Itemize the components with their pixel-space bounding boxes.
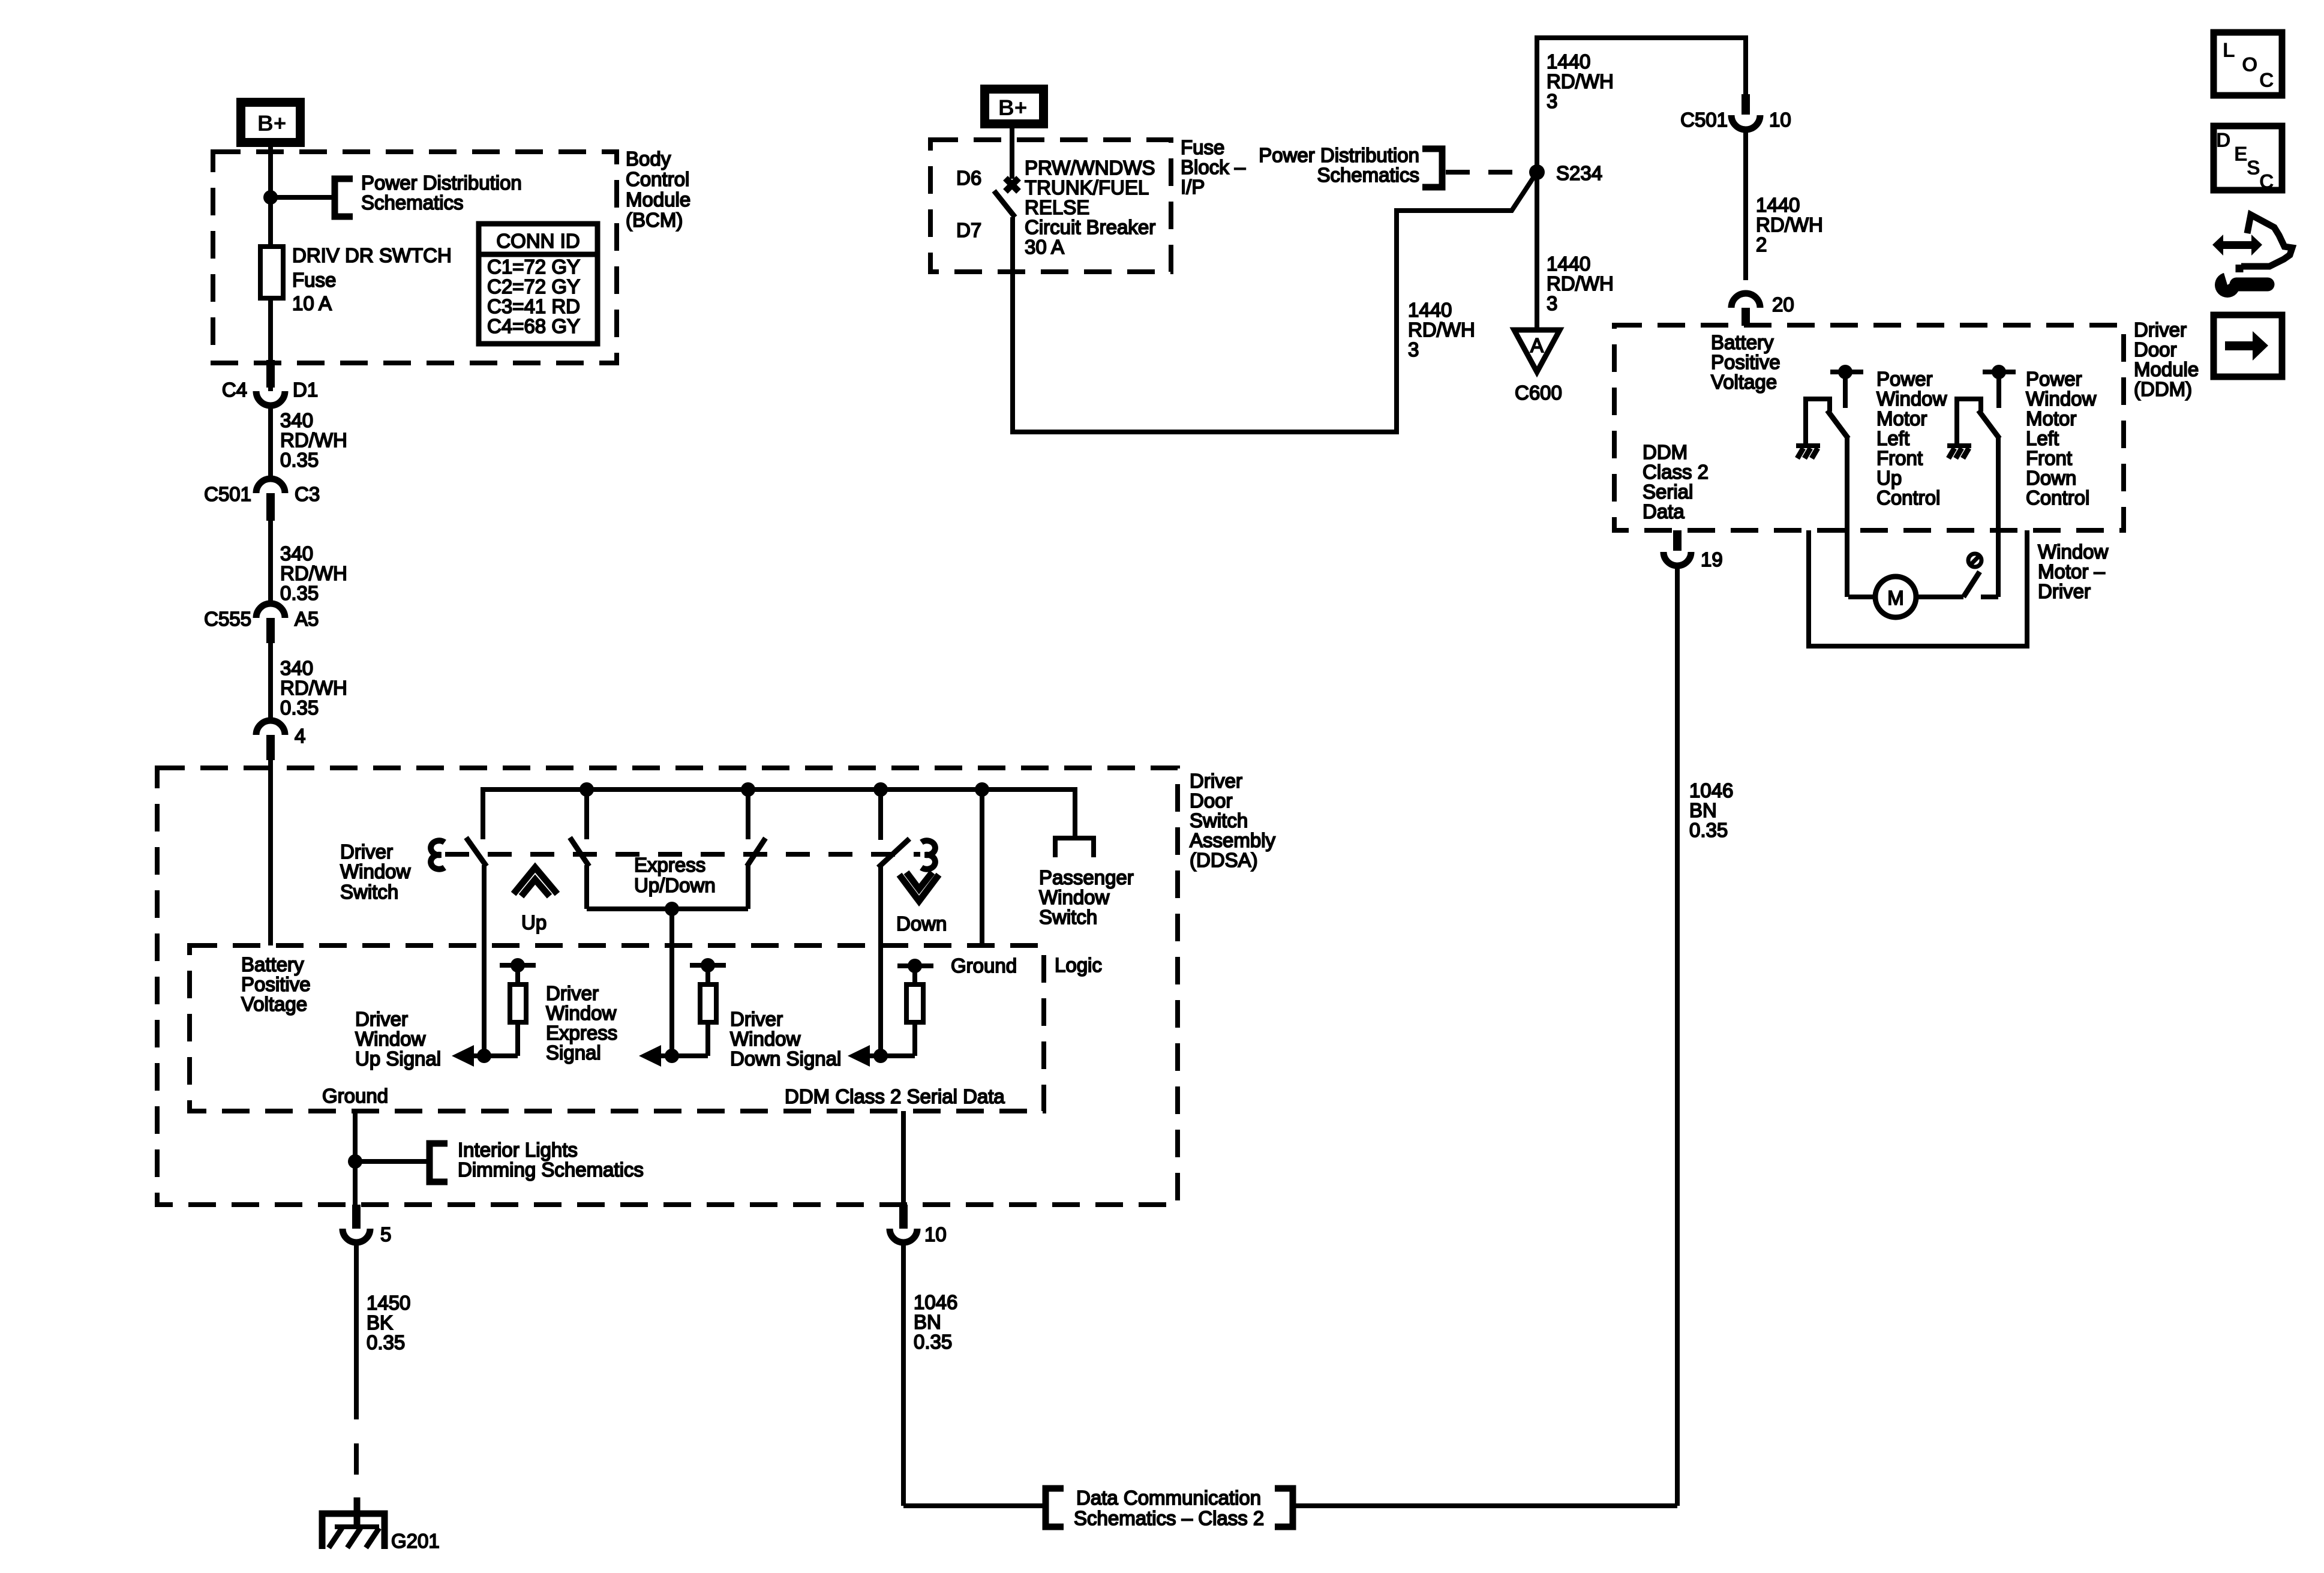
PRW/WNDWS breaker label	[1025, 157, 1155, 258]
Power Distribution Schematics reference bracket	[335, 172, 522, 217]
connector C600 (triangle A)	[1514, 330, 1562, 404]
express signal wire	[669, 909, 674, 1058]
connector pin 19	[1664, 530, 1723, 571]
svg-text:Module: Module	[626, 188, 690, 211]
ground G201	[322, 1497, 440, 1552]
svg-text:30 A: 30 A	[1025, 236, 1064, 258]
svg-text:Up: Up	[521, 911, 547, 933]
svg-text:1450: 1450	[367, 1292, 410, 1314]
svg-text:Down: Down	[896, 912, 947, 935]
junction to interior lights	[348, 1154, 362, 1169]
svg-text:Logic: Logic	[1055, 954, 1102, 976]
svg-text:1046: 1046	[914, 1291, 957, 1313]
svg-text:C4=68 GY: C4=68 GY	[487, 315, 580, 337]
wire 1046 BN label right	[1689, 779, 1733, 841]
svg-text:Down Signal: Down Signal	[730, 1047, 841, 1070]
wire 1440 RD/WH 3 label (below S234)	[1547, 253, 1614, 314]
svg-text:Control: Control	[2026, 487, 2089, 509]
connector pin 20	[1731, 293, 1794, 326]
svg-text:Motor –: Motor –	[2038, 560, 2106, 583]
switch bus wire	[483, 787, 1075, 792]
wire 340 RD/WH segment 3	[271, 643, 347, 722]
svg-text:RD/WH: RD/WH	[280, 677, 347, 699]
svg-text:RD/WH: RD/WH	[1547, 272, 1614, 295]
svg-text:340: 340	[280, 542, 313, 565]
svg-text:RD/WH: RD/WH	[280, 429, 347, 451]
svg-text:(DDM): (DDM)	[2134, 378, 2192, 400]
fuse DRIV DR SWTCH 10A	[260, 244, 452, 314]
svg-text:Control: Control	[626, 168, 689, 190]
express switch right blade	[747, 787, 765, 909]
svg-text:Window: Window	[340, 860, 411, 882]
svg-text:0.35: 0.35	[280, 582, 319, 604]
svg-text:10 A: 10 A	[292, 292, 332, 314]
svg-text:Interior Lights: Interior Lights	[458, 1139, 578, 1161]
svg-text:340: 340	[280, 409, 313, 431]
Body Control Module (BCM) dashed box	[213, 152, 617, 363]
svg-text:Data: Data	[1643, 500, 1685, 523]
svg-text:Front: Front	[1876, 447, 1923, 469]
serial data wire in DDSA	[901, 1111, 906, 1205]
svg-text:Motor: Motor	[1876, 407, 1927, 430]
svg-text:Assembly: Assembly	[1190, 829, 1276, 851]
svg-text:Window: Window	[1039, 886, 1110, 908]
DDSA label	[1190, 770, 1276, 871]
svg-text:Positive: Positive	[241, 973, 311, 995]
Window Motor Driver label	[2038, 541, 2109, 602]
svg-text:Voltage: Voltage	[1711, 371, 1777, 393]
svg-text:3: 3	[1547, 292, 1557, 314]
svg-text:2: 2	[1756, 233, 1767, 256]
svg-text:Window: Window	[2026, 388, 2097, 410]
svg-text:Serial: Serial	[1643, 481, 1693, 503]
svg-text:C2=72 GY: C2=72 GY	[487, 275, 580, 298]
bus junction node 4	[975, 782, 989, 797]
svg-text:S234: S234	[1556, 162, 1602, 184]
svg-text:10: 10	[924, 1223, 947, 1245]
svg-text:CONN ID: CONN ID	[496, 230, 580, 252]
svg-text:DDM Class 2 Serial Data: DDM Class 2 Serial Data	[785, 1085, 1005, 1107]
svg-text:DDM: DDM	[1643, 441, 1688, 463]
svg-text:Schematics: Schematics	[1317, 164, 1419, 186]
svg-text:Class 2: Class 2	[1643, 461, 1709, 483]
svg-text:PRW/WNDWS: PRW/WNDWS	[1025, 157, 1155, 179]
svg-text:Driver: Driver	[730, 1008, 783, 1030]
bus junction node 1	[580, 782, 594, 797]
wire 1440 RD/WH 3 label (left)	[1408, 299, 1475, 361]
svg-text:Power: Power	[1876, 368, 1933, 390]
wire to data communication bracket	[903, 1503, 1046, 1508]
wire 1450 BK	[356, 1242, 410, 1512]
arrow icon box	[2214, 315, 2282, 377]
svg-text:RD/WH: RD/WH	[280, 562, 347, 584]
D7 label	[956, 219, 981, 241]
svg-text:Power: Power	[2026, 368, 2082, 390]
DESC icon box	[2214, 126, 2282, 193]
svg-text:A: A	[1530, 334, 1544, 356]
svg-text:I/P: I/P	[1181, 176, 1205, 198]
svg-text:3: 3	[1547, 90, 1557, 112]
svg-text:L: L	[2223, 39, 2235, 62]
svg-text:Window: Window	[730, 1028, 801, 1050]
B+ power symbol (BCM feed)	[241, 103, 301, 143]
passenger window switch symbol	[1055, 787, 1094, 857]
svg-text:Schematics – Class 2: Schematics – Class 2	[1074, 1507, 1264, 1529]
svg-text:BN: BN	[1689, 799, 1717, 821]
svg-text:C1=72 GY: C1=72 GY	[487, 256, 580, 278]
Battery Positive Voltage label	[241, 953, 311, 1015]
splice S234	[1529, 162, 1602, 184]
svg-text:Dimming Schematics: Dimming Schematics	[458, 1158, 644, 1181]
wire 1440 RD/WH 2	[1746, 130, 1823, 280]
Driver Window Up Signal label	[355, 1008, 441, 1070]
svg-text:Window: Window	[1876, 388, 1947, 410]
svg-text:Window: Window	[546, 1002, 617, 1024]
svg-text:5: 5	[380, 1223, 391, 1245]
logic ground wire	[980, 789, 984, 945]
wire B+ into breaker	[1010, 128, 1014, 179]
Fuse Block I/P label	[1181, 136, 1246, 198]
wire 340 RD/WH segment 1	[271, 406, 347, 480]
svg-text:B+: B+	[998, 95, 1027, 120]
svg-text:DRIV DR SWTCH: DRIV DR SWTCH	[292, 244, 452, 266]
svg-text:(BCM): (BCM)	[626, 209, 683, 231]
svg-text:Battery: Battery	[241, 953, 304, 975]
Driver Door Switch Assembly (DDSA) dashed box	[157, 768, 1178, 1205]
svg-text:Window: Window	[355, 1028, 426, 1050]
DDM label	[2134, 319, 2199, 400]
svg-text:C501: C501	[1680, 109, 1728, 131]
Logic label	[1055, 954, 1102, 976]
Passenger Window Switch label	[1039, 866, 1134, 928]
wire to interior lights bracket	[355, 1159, 428, 1164]
svg-text:0.35: 0.35	[280, 449, 319, 471]
svg-text:C600: C600	[1515, 382, 1562, 404]
svg-text:Driver: Driver	[340, 840, 393, 863]
motor loop outer wires	[1809, 530, 2027, 646]
down switch	[878, 787, 909, 1058]
svg-text:Power Distribution: Power Distribution	[1259, 144, 1419, 166]
svg-text:1440: 1440	[1547, 50, 1590, 73]
B+ power symbol (fuse block feed)	[985, 89, 1044, 124]
wire breaker to S234	[1013, 172, 1537, 432]
svg-text:Power Distribution: Power Distribution	[361, 172, 522, 194]
bus junction node 3	[873, 782, 888, 797]
svg-text:0.35: 0.35	[914, 1331, 952, 1353]
svg-text:C3=41 RD: C3=41 RD	[487, 295, 580, 317]
Power Distribution Schematics bracket (middle)	[1259, 144, 1529, 187]
svg-text:1046: 1046	[1689, 779, 1733, 801]
svg-text:C501: C501	[204, 483, 251, 505]
svg-text:B+: B+	[257, 111, 286, 136]
svg-text:C555: C555	[204, 608, 251, 630]
Ground label (switch ground)	[322, 1085, 388, 1107]
Driver Window Express Signal label	[546, 982, 617, 1064]
driver window switch label	[340, 840, 411, 903]
svg-text:Passenger: Passenger	[1039, 866, 1134, 888]
wire 340 RD/WH segment 2	[271, 521, 347, 605]
svg-text:D1: D1	[293, 379, 318, 401]
bus junction node 2	[741, 782, 755, 797]
Interior Lights Dimming reference bracket	[430, 1139, 644, 1182]
svg-text:Ground: Ground	[951, 954, 1017, 977]
BCM label	[626, 148, 690, 231]
Fuse Block I/P dashed box	[930, 140, 1171, 272]
svg-text:Up/Down: Up/Down	[634, 874, 716, 896]
connector C501 / C3	[204, 479, 320, 521]
svg-text:RD/WH: RD/WH	[1408, 319, 1475, 341]
svg-text:Switch: Switch	[340, 881, 398, 903]
express junction node	[665, 902, 679, 916]
DDM Class 2 Serial Data label (DDM)	[1643, 441, 1709, 523]
Driver Door Module (DDM) dashed box	[1614, 325, 2124, 530]
resistor R1 (up signal pull)	[500, 958, 536, 1056]
svg-text:10: 10	[1769, 109, 1791, 131]
connector C555 / A5	[204, 604, 319, 643]
wire to Power Distribution bracket	[271, 195, 334, 200]
svg-text:Signal: Signal	[546, 1041, 601, 1064]
connector pin 4 of DDSA	[256, 721, 305, 760]
svg-text:Up Signal: Up Signal	[355, 1047, 441, 1070]
trunk wire S234 vertical and top run	[1537, 38, 1746, 332]
svg-text:Fuse: Fuse	[292, 269, 336, 291]
up signal row with arrow	[452, 1045, 518, 1067]
Battery Positive Voltage label (DDM)	[1711, 331, 1780, 393]
svg-text:Driver: Driver	[546, 982, 599, 1004]
linkage end symbol right	[921, 840, 935, 869]
svg-text:(DDSA): (DDSA)	[1190, 849, 1258, 871]
resistor R3 (down signal pull)	[897, 959, 933, 1056]
svg-text:Front: Front	[2026, 447, 2072, 469]
diagnostic car icon	[2212, 215, 2292, 272]
svg-text:RD/WH: RD/WH	[1756, 214, 1823, 236]
svg-text:E: E	[2234, 143, 2248, 166]
Power Window Motor Left Front Up Control label	[1876, 368, 1947, 509]
svg-text:Window: Window	[2038, 541, 2109, 563]
svg-text:Module: Module	[2134, 358, 2199, 380]
svg-text:Express: Express	[546, 1022, 617, 1044]
DDSA interface dashed box	[190, 945, 1044, 1111]
svg-text:Up: Up	[1876, 467, 1902, 489]
svg-text:C: C	[2259, 170, 2274, 193]
svg-text:Driver: Driver	[1190, 770, 1242, 792]
svg-text:TRUNK/FUEL: TRUNK/FUEL	[1025, 176, 1149, 199]
Driver Window Down Signal label	[730, 1008, 841, 1070]
Up arrow symbol	[514, 867, 557, 933]
svg-text:C: C	[2259, 69, 2274, 92]
svg-text:Driver: Driver	[2038, 580, 2091, 602]
svg-text:Positive: Positive	[1711, 351, 1780, 373]
ground wire in DDSA	[353, 1111, 358, 1205]
express switch bottom link	[587, 906, 748, 911]
svg-text:A5: A5	[295, 608, 319, 630]
svg-text:Block –: Block –	[1181, 156, 1246, 178]
svg-text:Driver: Driver	[2134, 319, 2187, 341]
Ground label (logic)	[951, 954, 1017, 977]
svg-text:RELSE: RELSE	[1025, 196, 1089, 218]
CONN ID table	[479, 224, 597, 344]
svg-text:1440: 1440	[1547, 253, 1590, 275]
resistor R2 (express signal pull)	[690, 958, 726, 1056]
connector C501 pin 10	[1680, 94, 1791, 131]
svg-text:Express: Express	[634, 854, 705, 876]
up control driver (relay)	[1796, 365, 1863, 597]
linkage end symbol left	[431, 840, 445, 869]
svg-text:Left: Left	[1876, 427, 1909, 449]
circuit breaker blade	[994, 191, 1015, 217]
DDM Class 2 Serial Data label	[785, 1085, 1005, 1107]
express signal row with arrow	[639, 1045, 708, 1067]
svg-text:D7: D7	[956, 219, 981, 241]
svg-text:0.35: 0.35	[280, 697, 319, 719]
svg-text:Left: Left	[2026, 427, 2059, 449]
svg-text:Fuse: Fuse	[1181, 136, 1224, 158]
motor thermal breaker switch	[1963, 554, 1998, 597]
mechanical linkage dashed line	[445, 852, 920, 857]
svg-text:Ground: Ground	[322, 1085, 388, 1107]
svg-text:Data Communication: Data Communication	[1076, 1487, 1261, 1509]
svg-text:C3: C3	[295, 483, 320, 505]
connector C4 / D1	[222, 360, 318, 406]
svg-text:S: S	[2247, 157, 2260, 179]
svg-text:G201: G201	[391, 1530, 440, 1552]
wrench icon	[2215, 269, 2268, 298]
wire 1440 RD/WH 3 label (top)	[1547, 50, 1614, 112]
svg-text:Switch: Switch	[1039, 906, 1097, 928]
driver window up switch	[466, 787, 487, 1058]
svg-text:0.35: 0.35	[1689, 819, 1728, 841]
svg-text:C4: C4	[222, 379, 247, 401]
svg-text:Door: Door	[2134, 338, 2177, 361]
svg-text:Circuit Breaker: Circuit Breaker	[1025, 216, 1155, 238]
D6 label	[956, 167, 981, 189]
wire battery positive into DDSA	[268, 760, 273, 945]
svg-text:340: 340	[280, 657, 313, 679]
svg-text:3: 3	[1408, 338, 1419, 361]
svg-text:BN: BN	[914, 1311, 941, 1333]
svg-text:Body: Body	[626, 148, 671, 170]
Data Communication Schematics bracket	[1046, 1487, 1293, 1529]
svg-text:0.35: 0.35	[367, 1331, 405, 1353]
svg-text:Battery: Battery	[1711, 331, 1774, 353]
svg-text:Switch: Switch	[1190, 809, 1248, 831]
svg-text:Driver: Driver	[355, 1008, 408, 1030]
svg-text:D: D	[2216, 129, 2231, 152]
svg-text:20: 20	[1772, 293, 1794, 316]
express switch left blade	[570, 787, 589, 909]
svg-text:BK: BK	[367, 1311, 393, 1334]
down signal row with arrow	[848, 1045, 915, 1067]
Express Up/Down label	[634, 854, 716, 896]
svg-text:1440: 1440	[1408, 299, 1452, 321]
svg-text:4: 4	[295, 725, 305, 747]
svg-text:O: O	[2242, 53, 2257, 76]
junction node to Power Distribution	[263, 190, 278, 205]
window motor M	[1848, 577, 1963, 617]
connector pin 5	[343, 1205, 391, 1245]
svg-text:Down: Down	[2026, 467, 2076, 489]
svg-text:1440: 1440	[1756, 194, 1800, 216]
wire 1046 BN left segment	[903, 1242, 957, 1506]
svg-text:19: 19	[1701, 548, 1723, 571]
wire data comm to DDM serial	[1293, 565, 1677, 1506]
LOC icon box	[2214, 32, 2282, 95]
svg-text:Door: Door	[1190, 789, 1233, 812]
wire B+ to fuse (BCM internal)	[268, 147, 273, 391]
svg-text:Motor: Motor	[2026, 407, 2076, 430]
svg-text:D6: D6	[956, 167, 981, 189]
Power Window Motor Left Front Down Control label	[2026, 368, 2097, 509]
down control driver (relay)	[1947, 365, 2016, 597]
svg-text:Schematics: Schematics	[361, 191, 464, 214]
svg-text:Control: Control	[1876, 487, 1940, 509]
svg-text:Voltage: Voltage	[241, 993, 307, 1015]
svg-text:RD/WH: RD/WH	[1547, 70, 1614, 92]
connector pin 10	[890, 1205, 947, 1245]
breaker terminal x-mark D6	[1005, 178, 1019, 191]
svg-text:M: M	[1887, 587, 1904, 609]
Down arrow symbol	[896, 872, 947, 935]
